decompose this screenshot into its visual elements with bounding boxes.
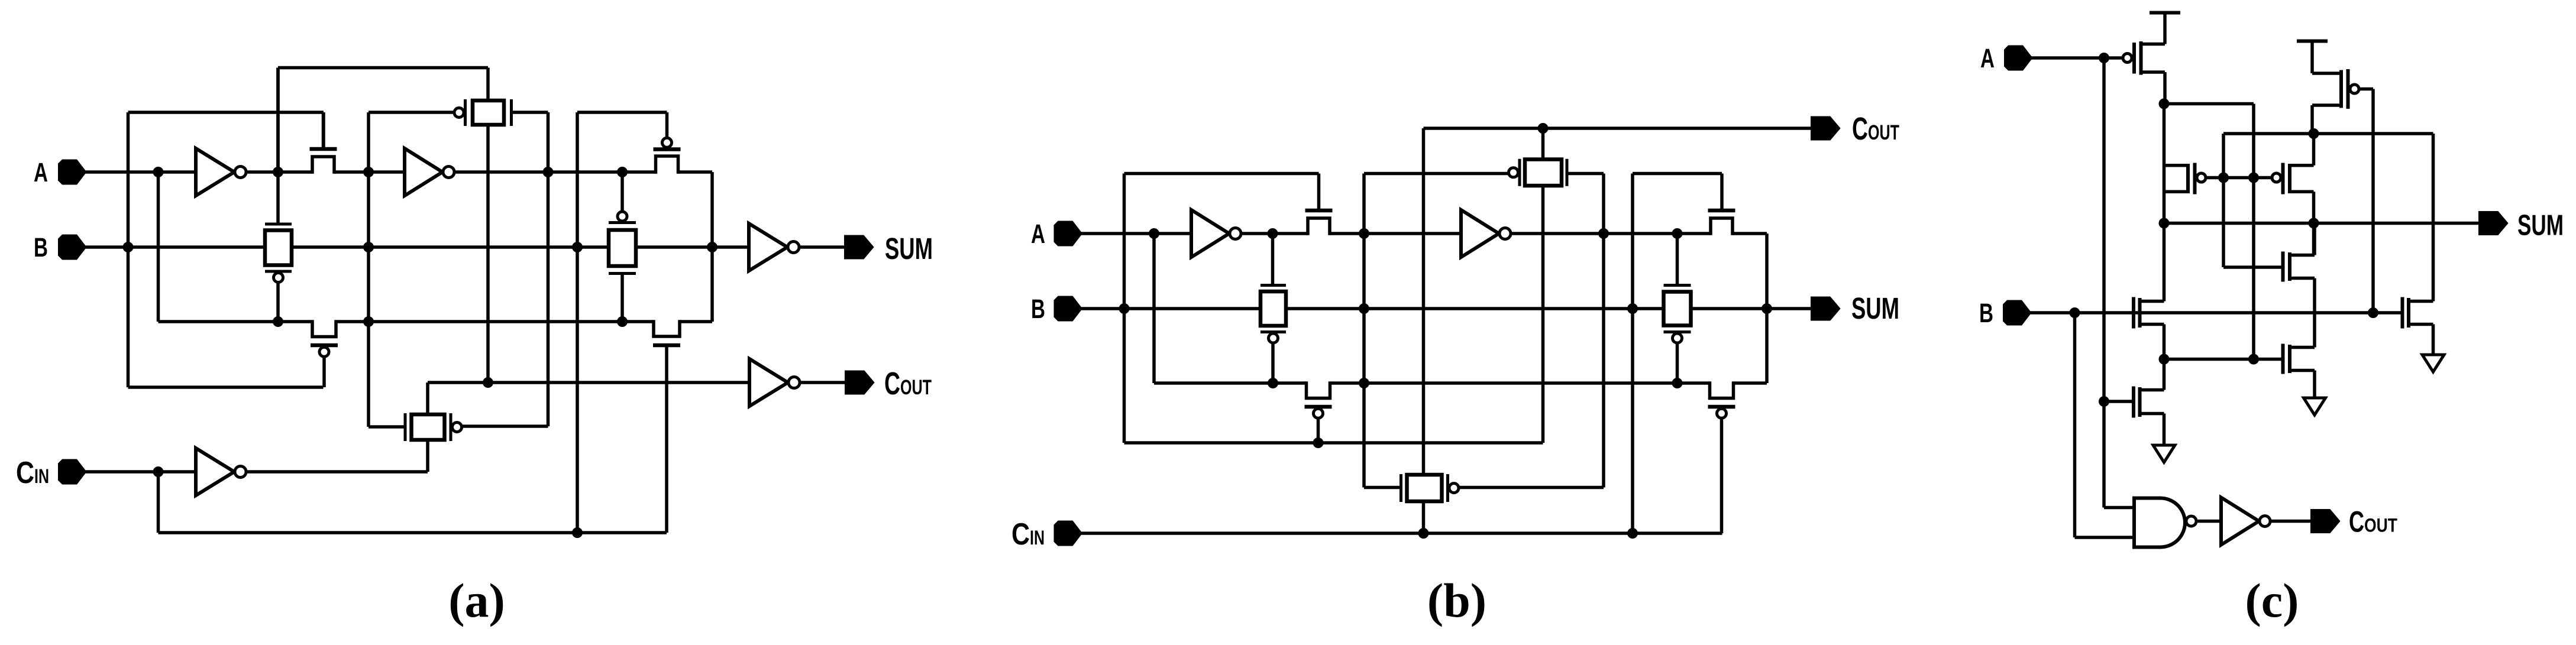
junction A at M7 gate (c) — [2099, 396, 2109, 407]
wire cout net drop (a) — [426, 383, 429, 414]
input arrow CIN (a) — [59, 461, 85, 484]
wire w6 mid (b) — [1331, 381, 1709, 385]
wire gate rail mid (b) — [1364, 172, 1510, 176]
wire NAND to INV (c) — [2196, 520, 2221, 523]
transistor P2 pmos pass (a) — [311, 320, 338, 387]
wire INV1 out (b) — [1241, 232, 1308, 235]
wire cout net (a) — [428, 381, 749, 384]
junction nodeS at A (a) — [543, 167, 554, 177]
junction TG3 drain at cout net (a) — [483, 377, 493, 388]
wire A input (b) — [1081, 232, 1192, 235]
wire P2 gate wire (a) — [128, 385, 324, 389]
input arrow CIN (b) — [1055, 522, 1081, 545]
junction v3810 at gate row (c) — [2248, 173, 2259, 183]
transmission gate TG1 (a) — [265, 224, 292, 283]
transistor P1 pmos pass (a) — [654, 112, 681, 174]
output arrow SUM (c) — [2480, 212, 2507, 234]
junction TG4 at W3 (a) — [617, 316, 628, 327]
wire TG4 bottom channel (b) — [1541, 186, 1545, 443]
junction TG3 at w6 (b) — [1672, 378, 1683, 388]
wire bottom rail (a) — [159, 531, 667, 534]
wire INV4 input (a) — [712, 245, 749, 249]
junction B2 rail at B (a) — [572, 242, 583, 252]
input arrow B (a) — [59, 236, 85, 259]
wire B input (a) — [85, 245, 264, 249]
output arrow COUT (a) — [846, 372, 873, 394]
svg-text:SUM: SUM — [885, 232, 933, 265]
junction corner at B (b) — [1761, 303, 1772, 314]
junction rail at SUM (c) — [2159, 218, 2170, 229]
wire A fanout vertical (c) — [2102, 58, 2106, 508]
wire sum channel left (a) — [159, 320, 312, 323]
transistor M1 pmos (c) — [2123, 41, 2165, 75]
transmission gate TG2 (a) — [405, 413, 462, 441]
junction TG4 gate at A (a) — [617, 167, 628, 177]
wire cout net (b) — [1424, 127, 1812, 130]
wire B to TG2col (a) — [293, 245, 713, 249]
wire TG2 bottom channel (b) — [1422, 501, 1426, 533]
wire A input (a) — [85, 170, 196, 174]
wire SUM net (c) — [2164, 222, 2480, 225]
wire TG1 top gate lead (b) — [1271, 234, 1275, 285]
wire inv2out vertical (b) — [1602, 174, 1605, 488]
wire corner down right (b) — [1765, 234, 1769, 383]
wire w6 right (b) — [1734, 381, 1767, 385]
vdd symbol 1 (c) — [2150, 13, 2180, 44]
wire CIN input (b) — [1081, 531, 1722, 535]
wire sum channel A drop (a) — [157, 172, 160, 322]
wire TG3 drain drop (a) — [486, 125, 490, 383]
wire TG3 right gate lead (a) — [513, 111, 548, 114]
inverter INV3 (a) — [196, 448, 246, 495]
svg-text:A: A — [1031, 219, 1045, 249]
junction right gate vertical at CIN (b) — [1627, 528, 1638, 539]
wire TG2 bottom channel (a) — [426, 440, 429, 472]
wire P1 to corner (a) — [678, 170, 713, 174]
wire M9 w3 drop (c) — [2432, 134, 2435, 223]
junction node2 at A (b) — [1359, 228, 1369, 239]
wire INV5 out (a) — [800, 381, 845, 384]
junction left vertical at B (b) — [1119, 303, 1130, 314]
junction A fanout (c) — [2099, 53, 2109, 63]
wire w7 rail (b) — [1124, 441, 1543, 445]
wire M7 gate lead (c) — [2104, 400, 2134, 403]
wire M4 drain drop (c) — [2310, 105, 2314, 134]
junction w3 at v3911 (c) — [2309, 128, 2319, 139]
transmission gate TG2 (b) — [1401, 474, 1459, 502]
wire sum channel mid (a) — [337, 320, 654, 323]
junction TG3 gate at A (b) — [1672, 228, 1683, 239]
wire TG1 gate bottom lead (a) — [276, 283, 280, 322]
wire top rail left (b) — [1124, 172, 1319, 176]
wire cout drop / TG2 top channel (b) — [1422, 128, 1426, 475]
wire node2 vertical (b) — [1362, 174, 1366, 488]
wire B mid (b) — [1287, 307, 1663, 310]
wire N1 to INV2 (a) — [335, 170, 405, 174]
wire TG3 bottom gate lead (b) — [1676, 343, 1679, 383]
wire M4 gate lead (c) — [2359, 87, 2373, 91]
wire w8 (c) — [2164, 358, 2283, 361]
svg-text:B: B — [1031, 294, 1045, 324]
wire TG3 left gate lead (a) — [369, 111, 455, 114]
ground 3 (c) — [2422, 355, 2444, 372]
transmission gate TG4 top (b) — [1509, 159, 1567, 186]
wire INV1 output Abar (a) — [246, 170, 312, 174]
transistor P2 pmos pass (b) — [1708, 381, 1735, 533]
wire gate net G1 horizontal (a) — [128, 111, 324, 114]
wire CIN input (a) — [85, 470, 196, 474]
wire rail mid (c) — [2163, 325, 2166, 390]
inverter INV2 (a) — [405, 148, 454, 196]
wire left vertical (b) — [1123, 174, 1126, 443]
transmission gate TG4 (a) — [609, 212, 636, 274]
wire top rail right drop (a) — [486, 68, 490, 101]
output arrow SUM (b) — [1812, 298, 1839, 320]
junction v3810 at w8 (c) — [2248, 354, 2259, 365]
wire top rail (a) — [278, 66, 488, 70]
junction P1 gate at w7 (b) — [1313, 437, 1324, 448]
wire NAND input A (c) — [2104, 506, 2134, 510]
wire gate row (c) — [2206, 176, 2271, 180]
wire node2 vertical (a) — [367, 112, 370, 427]
wire TG2 left gate lead (b) — [1364, 486, 1401, 490]
transistor M8 nmos right (c) — [2283, 344, 2315, 374]
wire INV3 output (a) — [246, 470, 428, 474]
junction TG4 at cout (b) — [1538, 123, 1549, 134]
junction TG1 gate at A (b) — [1268, 228, 1278, 239]
transistor N2 nmos pass (a) — [653, 320, 680, 533]
input arrow A (a) — [59, 161, 85, 184]
svg-text:A: A — [34, 157, 48, 187]
inverter INV1 (b) — [1191, 210, 1241, 257]
svg-text:B: B — [1979, 298, 1993, 328]
wire A input (c) — [2030, 56, 2123, 60]
junction B at v4012 (c) — [2368, 307, 2378, 318]
inverter INV2 (b) — [1461, 210, 1511, 257]
wire M5 bottom stub vertical (c) — [2313, 278, 2316, 348]
transistor M4 pmos (c) — [2312, 69, 2359, 109]
svg-text:SUM: SUM — [1851, 291, 1899, 325]
junction CIN fanout (a) — [153, 466, 164, 477]
input arrow A (b) — [1055, 222, 1081, 245]
junction TG1 at w6 (b) — [1268, 378, 1278, 388]
output arrow COUT (b) — [1812, 118, 1839, 140]
junction A-fanout (a) — [153, 167, 164, 177]
wire SUM out segment (b) — [1692, 307, 1812, 310]
wire CIN fanout drop (a) — [157, 472, 160, 533]
junction TG1 gate at A (a) — [273, 167, 283, 177]
wire B input (b) — [1081, 307, 1260, 310]
wire sum channel right (a) — [680, 320, 712, 323]
wire gate rail right (b) — [1633, 172, 1722, 176]
junction v3759 at gate row (c) — [2218, 173, 2229, 183]
junction node2 at B (b) — [1359, 303, 1369, 314]
junction TG1 at W3 (a) — [273, 316, 283, 327]
transistor M6 nmos B (c) — [2134, 297, 2164, 329]
junction B fanout (c) — [2070, 307, 2080, 318]
wire TG4 right gate lead (b) — [1567, 172, 1604, 176]
junction node2 at w6 (b) — [1359, 378, 1369, 388]
transistor N1 nmos pass (b) — [1305, 174, 1333, 235]
svg-text:B: B — [34, 232, 48, 262]
wire TG4 bottom gate lead (a) — [620, 274, 624, 322]
wire M4 gate vertical (c) — [2371, 89, 2375, 313]
wire M9 drain vertical (c) — [2432, 223, 2435, 302]
wire nodeS vertical (a) — [547, 112, 550, 426]
transmission gate TG1 (b) — [1260, 286, 1286, 343]
wire TG2 right gate lead (b) — [1459, 486, 1604, 490]
wire M9 source drop (c) — [2432, 325, 2435, 355]
wire N2 to corner (b) — [1733, 232, 1767, 235]
output arrow SUM (a) — [845, 236, 872, 258]
wire N1 to INV2 (b) — [1330, 232, 1462, 235]
svg-text:SUM: SUM — [2517, 210, 2564, 242]
svg-text:A: A — [1980, 43, 1995, 73]
output arrow COUT (c) — [2312, 510, 2339, 532]
wire gate net G1 drop to N1 (a) — [322, 112, 325, 149]
inverter INV6 (c) — [2221, 498, 2270, 545]
wire w3 (c) — [2223, 132, 2433, 135]
wire TG4 top channel (b) — [1541, 128, 1545, 160]
inverter INV5 cout (a) — [749, 359, 800, 406]
ground 1 (c) — [2153, 445, 2175, 462]
transmission gate TG3 top (a) — [454, 99, 512, 126]
wire mid vertical v3810 (c) — [2252, 104, 2255, 359]
wire node2 to TG2 gate (a) — [369, 425, 404, 429]
ground 2 (c) — [2304, 398, 2326, 415]
vdd symbol 2 (c) — [2297, 41, 2328, 74]
transistor N2 nmos pass (b) — [1708, 209, 1735, 235]
input arrow A (c) — [2005, 47, 2031, 70]
transistor P1 pmos pass (b) — [1305, 381, 1332, 443]
nand gate U1 (c) — [2134, 498, 2196, 547]
transistor M7 nmos A (c) — [2134, 387, 2164, 418]
wire M8 source drop (c) — [2313, 371, 2316, 398]
svg-text:(a): (a) — [448, 573, 505, 627]
junction TG2 channel at CIN (b) — [1418, 528, 1429, 539]
transistor M9 nmos far right (c) — [2403, 297, 2433, 329]
junction rail at w8 (c) — [2159, 354, 2170, 365]
wire nodeS to TG2 bubble (a) — [461, 424, 548, 428]
wire M1 drain drop (c) — [2163, 72, 2167, 104]
wire rail left upper (c) — [2163, 104, 2166, 302]
inverter INV1 (a) — [196, 148, 246, 196]
svg-text:(b): (b) — [1427, 573, 1486, 627]
transistor M5 nmos (c) — [2283, 252, 2315, 282]
transmission gate TG3 (b) — [1664, 286, 1691, 343]
junction B at left vertical (a) — [123, 242, 134, 252]
wire M7 source drop (c) — [2163, 414, 2166, 446]
wire node5 vertical (a) — [710, 172, 714, 322]
inverter INV4 sum (a) — [749, 223, 799, 271]
wire M5 gate lead (c) — [2223, 265, 2283, 269]
wire M3 top stub vertical (c) — [2312, 134, 2316, 166]
junction node2 at W3 (a) — [363, 316, 374, 327]
wire M3 bottom stub vertical (c) — [2312, 192, 2316, 255]
transistor N1 nmos pass (a) — [310, 112, 337, 174]
wire N2 gate drop (b) — [1720, 174, 1724, 211]
wire INV6 out (c) — [2270, 520, 2312, 523]
wire TG1 bottom gate lead (b) — [1271, 343, 1275, 383]
input arrow B (b) — [1055, 297, 1081, 320]
junction sum at v3911 (c) — [2309, 218, 2319, 229]
wire TG4 top gate lead (a) — [620, 172, 624, 211]
transistor M3 pmos (c) — [2272, 163, 2314, 195]
wire B2 gate rail top (a) — [577, 111, 667, 114]
wire TG3 top gate lead (b) — [1676, 234, 1679, 285]
junction A-fanout at A (b) — [1149, 228, 1159, 239]
wire A-fanout vertical (b) — [1152, 234, 1156, 383]
transistor M2 pmos (c) — [2164, 163, 2206, 195]
wire w2 (c) — [2164, 102, 2254, 106]
wire INV2 out (b) — [1511, 232, 1711, 235]
junction node2 at B (a) — [363, 242, 374, 252]
junction right gate vertical at B (b) — [1627, 303, 1638, 314]
wire TG1 gate top lead (a) — [276, 68, 280, 225]
wire B fanout vertical (c) — [2073, 313, 2077, 537]
wire INV4 out (a) — [799, 245, 845, 249]
wire right gate vertical (b) — [1631, 174, 1634, 534]
input arrow B (c) — [2004, 302, 2030, 325]
wire v3759 (c) — [2222, 134, 2225, 267]
wire left vertical B-fanout (a) — [127, 112, 130, 387]
junction node2 at A (a) — [363, 167, 374, 177]
wire top rail left drop (a) — [276, 68, 280, 173]
wire NAND input B (c) — [2075, 536, 2135, 539]
junction rail at w2 (c) — [2159, 99, 2170, 109]
wire w6 left (b) — [1154, 381, 1306, 385]
junction node5 at B (a) — [707, 242, 717, 252]
wire INV2 output (a) — [454, 170, 656, 174]
wire B input (c) — [2029, 311, 2402, 315]
wire B2 gate rail vertical (a) — [576, 112, 579, 533]
junction bottom rail (a) — [572, 527, 583, 538]
svg-text:(c): (c) — [2245, 573, 2299, 627]
junction inv2out at A (b) — [1598, 228, 1609, 239]
wire M5 top stub vertical (c) — [2313, 223, 2316, 255]
